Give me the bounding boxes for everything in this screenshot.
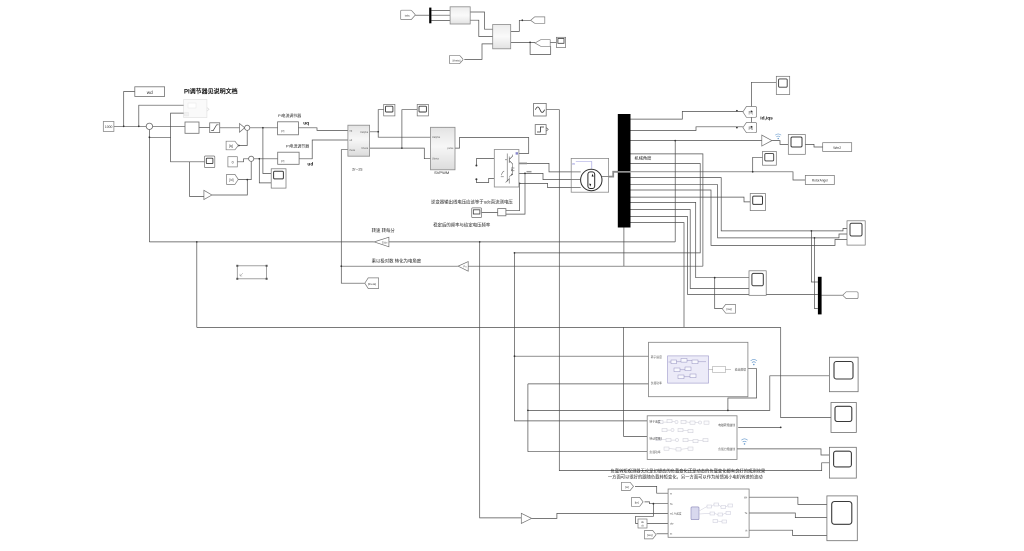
wire branch to isq goto tag — [715, 278, 723, 309]
gain4 triangle — [521, 513, 531, 523]
bus selector input band — [618, 171, 631, 173]
from tag iabc top — [401, 10, 416, 19]
mux2 bar — [818, 277, 822, 315]
node dc minus terminal — [475, 178, 477, 180]
svg-text:SVPWM: SVPWM — [434, 170, 449, 175]
node torque line junction — [527, 410, 529, 412]
wire dc plus stub — [476, 159, 494, 166]
scope speed small — [205, 156, 215, 168]
torque observer subsystem ss2 — [647, 416, 737, 460]
goto tag wm right — [843, 292, 858, 299]
wire branch to mux2 in3 — [815, 238, 818, 309]
node faded input1 branch — [138, 125, 140, 127]
node scopeB join — [780, 427, 782, 429]
node ib mux branch — [814, 237, 816, 239]
wire wq tag to motor model — [657, 533, 669, 535]
node iq tag tip — [238, 145, 240, 147]
from tag w bottom — [622, 482, 634, 490]
svg-text:PI电流调节器: PI电流调节器 — [278, 113, 301, 118]
wire bus row isd down to iq scope — [631, 202, 750, 277]
wifi icon speed scope — [775, 134, 781, 139]
scope4 — [417, 104, 428, 116]
svg-text:0: 0 — [232, 160, 234, 164]
wire branch up to small scope — [753, 157, 763, 172]
wire bus row to id goto — [631, 111, 743, 119]
wire branch to observer1 port1 — [515, 355, 649, 357]
wire branch to faded PI input2 — [149, 113, 183, 137]
saturation block — [210, 123, 220, 133]
wire torque to observer2 port3 — [528, 451, 647, 453]
node rotor angle scope branch — [752, 171, 754, 173]
wire bus row to scope5 — [631, 197, 751, 202]
wire gain2 input — [190, 162, 204, 196]
step source — [535, 125, 548, 135]
gainL2 pole pairs — [458, 262, 468, 272]
goto tag id — [743, 107, 757, 118]
svg-text:30/pi: 30/pi — [382, 240, 388, 244]
wire gain4 to motor model port3 — [532, 513, 669, 518]
node voltmeter tap B — [524, 173, 526, 175]
wifi icon ss2 — [741, 439, 747, 445]
svg-text:ud: ud — [307, 162, 313, 168]
wire rpm branch down to gain4 — [480, 242, 522, 518]
svg-text:[theta]: [theta] — [368, 282, 377, 286]
svg-text:PI: PI — [281, 159, 284, 163]
from tag Te bottom — [632, 498, 644, 507]
wire theta branch to theta goto tag — [341, 266, 365, 283]
wire Ubeta to SVPWM — [370, 148, 431, 159]
scopeC — [829, 447, 856, 478]
wire theta to dq transform — [341, 150, 348, 267]
wire sum1 branch to uqud scope in1 — [263, 128, 271, 174]
scope3 — [384, 104, 395, 116]
wire motor model out2 to scopeD — [749, 513, 827, 518]
wire rate block to saturation — [199, 127, 210, 129]
to workspace Wm2 — [823, 143, 852, 152]
node observer1 port1 branch — [514, 355, 516, 357]
constant speed reference 1000 — [103, 122, 114, 132]
sine wave source — [534, 103, 547, 116]
svg-text:负载功率: 负载功率 — [649, 450, 660, 454]
svg-text:m: m — [572, 162, 575, 166]
node id line join — [246, 179, 248, 181]
node iq scope branch — [714, 277, 716, 279]
svg-text:PI: PI — [281, 130, 284, 134]
svg-text:Ualpha: Ualpha — [432, 135, 441, 139]
wire block2 out2 to tag — [511, 41, 535, 43]
svg-text:乘以极对数 转化为电角度: 乘以极对数 转化为电角度 — [372, 257, 422, 264]
SVPWM block — [431, 127, 456, 170]
wire demux out2 — [431, 14, 450, 16]
node Te tag junction — [653, 503, 655, 505]
svg-text:2r--2s: 2r--2s — [352, 167, 362, 172]
wire bus row down to mux2 in2 — [631, 217, 818, 295]
node iq tag tip — [751, 126, 753, 128]
wire long lower line — [197, 326, 781, 328]
thick bus segment inverter B — [527, 171, 532, 173]
wire observer2 out1 to scopeB join — [738, 426, 781, 428]
sum junction sum1 — [245, 125, 250, 130]
wire mech angle row down — [631, 154, 703, 266]
node Ualpha branch — [377, 131, 379, 133]
wire SVPWM pulse to inverter gate — [455, 138, 529, 154]
wire sine to scopeC long vertical — [546, 110, 829, 471]
wire saturation to gain1 — [220, 127, 240, 129]
svg-text:Pn: Pn — [463, 265, 467, 269]
svg-text:逆变器输出线电压应该等于udc直流测电压: 逆变器输出线电压应该等于udc直流测电压 — [431, 199, 513, 206]
svg-text:pulse: pulse — [447, 146, 454, 150]
wifi icon ss1 — [751, 359, 757, 365]
wire tag to small scope top — [550, 41, 556, 43]
svg-text:1000: 1000 — [105, 125, 113, 129]
node dc plus terminal — [475, 165, 477, 167]
scope6 currents — [847, 221, 865, 245]
wire rpm line with gainL1 — [389, 241, 675, 243]
display wd — [135, 87, 165, 97]
wire lower line branch to observer2 port2 — [624, 327, 648, 436]
wire demux out3 — [431, 20, 450, 22]
svg-text:Wr: Wr — [744, 495, 747, 499]
node Ubeta branch — [401, 147, 403, 149]
goto tag top1 — [531, 17, 545, 23]
svg-text:[wq]: [wq] — [647, 533, 653, 537]
svg-text:dw: dw — [670, 522, 673, 526]
node lower line branch — [196, 241, 198, 243]
node wm line end — [514, 252, 516, 254]
wire observer1 output loop — [728, 369, 757, 411]
gain1 triangle — [240, 124, 245, 133]
svg-text:[theta]: [theta] — [453, 58, 461, 62]
wire wireless scope to Wm2 — [805, 144, 822, 147]
PI current regulator q block — [278, 122, 299, 135]
svg-text:id,iqs: id,iqs — [760, 116, 773, 122]
node ia mux branch — [811, 230, 813, 232]
scopeB — [831, 403, 856, 433]
svg-text:转子速度: 转子速度 — [649, 419, 660, 423]
to workspace RotorAngel — [805, 175, 834, 184]
wire gainL2 out to theta junction — [341, 265, 458, 267]
svg-text:dt: dt — [641, 524, 643, 528]
node feedback branch — [149, 136, 151, 138]
node theta junction — [340, 265, 342, 267]
wire observer2 out2 to scopeC in2 — [737, 449, 829, 455]
small display top — [556, 37, 565, 47]
dq to alphabeta transform block 2r-2s — [348, 125, 370, 156]
wire observer1 to scopeA — [728, 376, 830, 411]
sum junction sum2 — [249, 156, 254, 161]
wire branch to mux2 in1 — [811, 231, 818, 282]
wire inverter B to motor — [519, 173, 571, 179]
svg-text:iabc: iabc — [405, 13, 411, 17]
faded PI speed regulator subsystem — [184, 100, 209, 118]
node rpm gain4 branch — [479, 241, 481, 243]
svg-text:theta: theta — [349, 148, 355, 152]
wire bus row ia down — [631, 178, 848, 231]
svg-text:w1.%起度: w1.%起度 — [670, 512, 682, 516]
svg-text:RotorAngel: RotorAngel — [812, 179, 828, 183]
wire bus speed row to gain3 — [631, 140, 762, 142]
wire speed branch down to rpm line — [674, 141, 676, 242]
svg-text:[te]: [te] — [635, 500, 639, 504]
wire mux2 to goto tag — [822, 294, 843, 296]
wire iq from-tag to sum1 bottom — [238, 130, 247, 145]
wire sum2 branch to uqud scope in2 — [259, 159, 271, 183]
wire torque feedback line — [528, 409, 728, 411]
svg-text:wd: wd — [147, 90, 153, 95]
node id goto junction — [736, 110, 738, 112]
wire Ualpha to SVPWM — [370, 132, 431, 137]
PMSM motor block — [571, 158, 608, 192]
node sum1 out branch — [262, 127, 264, 129]
constant 0 — [228, 157, 237, 167]
svg-text:Ubeta: Ubeta — [361, 146, 368, 150]
thick bus segment inverter A — [519, 162, 527, 164]
wire dudt out — [647, 523, 668, 525]
scope5 — [750, 194, 765, 211]
wire branch to wd display — [124, 92, 135, 127]
wireless scope wm — [788, 135, 805, 155]
svg-text:转动惯量J: 转动惯量J — [649, 437, 662, 441]
rate transition block — [185, 122, 199, 133]
wire inverter A to motor — [519, 163, 571, 172]
svg-text:w: w — [670, 492, 672, 495]
wire bus row ic down — [631, 190, 848, 245]
svg-text:转速 转每分: 转速 转每分 — [372, 227, 396, 234]
wire dc minus stub — [476, 178, 494, 182]
node block2 out1 corner — [521, 19, 523, 21]
node wd branch — [123, 125, 125, 127]
svg-text:PI电流调节器: PI电流调节器 — [286, 143, 309, 148]
wire motor model out3 to scopeD — [749, 530, 827, 535]
svg-text:机械角度: 机械角度 — [635, 154, 653, 161]
wire id from-tag to sum2 bottom — [238, 161, 251, 179]
goto tag top2 rounded — [535, 40, 550, 47]
wire sum0 feedback vertical — [148, 130, 150, 242]
gainL1 30 per pi — [374, 237, 389, 247]
gain3 triangle — [762, 135, 772, 146]
wire w tag to motor model — [635, 486, 668, 493]
inverter bridge block — [494, 150, 519, 188]
wire top from-tag to demux — [415, 14, 429, 16]
scope uq ud — [271, 169, 286, 188]
scope id iq currents — [749, 271, 766, 296]
motor model subsystem ss3 — [668, 489, 749, 537]
wire bus bottom theta join — [623, 228, 625, 267]
wire PI1 uq to dq transform — [298, 128, 348, 131]
svg-text:一方面可以很好的跟随负载转矩变化，另一方面可以作为前馈减小电: 一方面可以很好的跟随负载转矩变化，另一方面可以作为前馈减小电机转速的波动 — [608, 473, 763, 480]
from tag iq — [226, 141, 238, 150]
svg-text:电磁转矩曲线: 电磁转矩曲线 — [718, 423, 735, 427]
svg-text:[w]: [w] — [625, 485, 629, 489]
PI current regulator d block — [278, 152, 299, 164]
gain2 triangle — [204, 190, 212, 199]
bus wire motor to bus selector — [609, 172, 618, 177]
goto tag theta — [365, 278, 379, 289]
wire branch to faded PI input1 — [139, 105, 184, 126]
goto tag iq — [743, 123, 757, 133]
svg-text:转子速度: 转子速度 — [651, 355, 662, 359]
node speed scope branch — [674, 140, 676, 142]
wire sum1 to PI1 — [250, 127, 278, 129]
svg-text:[id]: [id] — [229, 178, 233, 182]
wire speed ref to sum0 — [114, 125, 146, 127]
wire gain3 to wireless scope — [772, 141, 789, 145]
svg-text:uq: uq — [303, 121, 309, 126]
node observer1 loop junction — [727, 410, 729, 412]
top block1 abc to dq — [450, 7, 470, 24]
wire branch down to long lower line — [196, 242, 198, 328]
wire sum0 to rate block — [153, 125, 185, 127]
display udc — [472, 208, 482, 218]
wire torque to observer1 port2 — [528, 383, 649, 385]
node sum2 out branch — [258, 158, 260, 160]
scope rotor angle small — [763, 151, 777, 165]
wire gain1 to sum1 — [244, 127, 246, 129]
scope top id iq — [776, 76, 789, 94]
svg-text:稳定后的频率与给定电压频率: 稳定后的频率与给定电压频率 — [433, 221, 491, 228]
svg-text:Wm2: Wm2 — [833, 146, 841, 150]
sum junction sum0 — [146, 123, 152, 129]
wire Ualpha branch to scope3 — [378, 110, 384, 132]
wire demux out1 — [431, 10, 450, 12]
demux bar top — [429, 8, 431, 24]
wire bus row ib down — [631, 185, 848, 238]
load observer subsystem ss1 — [649, 342, 748, 396]
wire voltmeter tap phase C — [506, 183, 520, 210]
from tag wq bottom — [645, 531, 657, 539]
svg-text:PI调节器见说明文档: PI调节器见说明文档 — [184, 88, 238, 96]
from tag theta top — [449, 55, 463, 63]
wire block2 out2 loop to scope — [530, 42, 551, 54]
svg-text:负载功率: 负载功率 — [651, 381, 662, 385]
wire gainL1 out to sum feedback — [149, 241, 374, 243]
node block2 out2 branch — [529, 42, 531, 44]
svg-text:负载力矩曲线: 负载力矩曲线 — [718, 447, 735, 451]
from tag id — [227, 174, 239, 184]
wire block2 out1 to goto — [511, 20, 531, 31]
wire branch to top scope — [751, 82, 776, 125]
wire top block1 out1 to block2 — [470, 12, 493, 29]
derivative block dudt — [638, 519, 647, 528]
wire inverter C to motor — [519, 183, 571, 187]
scopeA — [829, 357, 858, 392]
wire rotor angle row — [631, 172, 806, 180]
node id tag tip — [751, 111, 753, 113]
wire const0 to sum2 — [237, 159, 248, 162]
svg-text:输出数据: 输出数据 — [735, 367, 746, 371]
wire voltmeter tap phase B — [506, 173, 525, 214]
wire bus row down to lower line b — [631, 223, 685, 328]
wire top theta tag to block2 — [464, 44, 492, 60]
wire motor model out1 to scopeD — [749, 497, 827, 504]
wire torque feedback vertical — [527, 384, 529, 452]
scopeD — [827, 496, 857, 541]
svg-text:[isq]: [isq] — [727, 307, 733, 311]
wire wm line down to subsystems — [515, 253, 648, 421]
wire display udc to voltmeter — [482, 211, 498, 213]
svg-text:[iq]: [iq] — [229, 144, 233, 148]
wire bus row to wm line — [515, 164, 701, 253]
wire Ubeta branch to scope4 — [402, 110, 417, 148]
annotation empty box — [236, 265, 267, 280]
svg-text:Ubeta: Ubeta — [432, 157, 439, 161]
wire sum2 to PI2 — [254, 158, 278, 160]
goto tag isq — [722, 304, 735, 313]
wire bus row to iq goto — [631, 127, 743, 131]
wire branch to speed scope — [171, 137, 205, 162]
svg-text:Ualpha: Ualpha — [360, 130, 369, 134]
wire PI2 ud to dq transform — [299, 140, 348, 159]
wire dudt loop — [636, 504, 654, 524]
wire gain2 output to id line — [212, 180, 247, 195]
wire mech angle line with gainL2 — [468, 265, 703, 267]
wire lower line down to scopeB — [781, 327, 831, 417]
wire top block1 out2 to block2 — [470, 20, 493, 36]
node voltmeter tap C — [519, 183, 521, 185]
wire bus row isq down to iq scope in2 — [631, 210, 750, 289]
voltage measurement block — [498, 209, 506, 216]
bus selector bar — [618, 114, 631, 228]
node iq goto junction — [736, 127, 738, 129]
top block2 transform — [493, 25, 511, 49]
wire Te tag to motor model — [645, 502, 669, 504]
